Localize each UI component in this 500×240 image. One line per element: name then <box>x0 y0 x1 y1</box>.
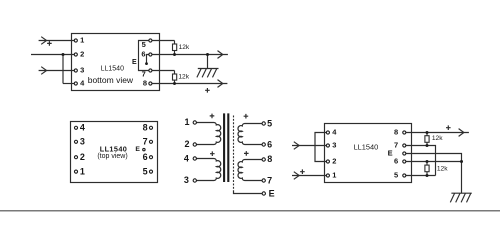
svg-text:6: 6 <box>267 139 272 149</box>
svg-text:4: 4 <box>80 123 85 133</box>
svg-text:8: 8 <box>394 128 398 137</box>
svg-text:12k: 12k <box>432 135 443 142</box>
svg-text:1: 1 <box>332 170 336 179</box>
svg-text:2: 2 <box>80 152 85 162</box>
svg-text:2: 2 <box>184 139 189 149</box>
svg-text:8: 8 <box>143 123 148 133</box>
svg-text:E: E <box>132 59 137 66</box>
svg-text:7: 7 <box>143 137 148 147</box>
svg-text:LL1540: LL1540 <box>101 66 124 73</box>
svg-text:6: 6 <box>394 157 398 166</box>
svg-text:E: E <box>135 146 140 153</box>
svg-text:8: 8 <box>143 79 147 88</box>
svg-text:12k: 12k <box>178 74 189 81</box>
svg-text:7: 7 <box>394 141 398 150</box>
svg-text:7: 7 <box>267 176 272 186</box>
svg-text:5: 5 <box>143 166 148 176</box>
svg-text:2: 2 <box>332 156 336 165</box>
svg-text:12k: 12k <box>179 44 190 51</box>
svg-text:3: 3 <box>80 66 84 75</box>
svg-text:(top view): (top view) <box>97 153 127 160</box>
svg-text:4: 4 <box>184 153 189 163</box>
svg-text:2: 2 <box>80 50 84 59</box>
svg-text:3: 3 <box>80 137 85 147</box>
svg-text:1: 1 <box>184 117 189 127</box>
svg-text:6: 6 <box>143 152 148 162</box>
svg-text:LL1540: LL1540 <box>354 143 379 152</box>
svg-text:3: 3 <box>184 175 189 185</box>
svg-text:E: E <box>388 149 393 158</box>
svg-text:5: 5 <box>267 118 272 128</box>
svg-text:5: 5 <box>394 170 398 179</box>
svg-text:5: 5 <box>142 40 146 49</box>
svg-text:1: 1 <box>80 166 85 176</box>
svg-text:6: 6 <box>141 49 145 58</box>
svg-text:12k: 12k <box>437 165 448 172</box>
svg-text:E: E <box>269 188 275 198</box>
svg-text:3: 3 <box>332 140 336 149</box>
svg-text:8: 8 <box>267 154 272 164</box>
svg-text:7: 7 <box>142 70 146 79</box>
svg-text:4: 4 <box>332 127 337 136</box>
svg-text:4: 4 <box>80 79 85 88</box>
svg-text:bottom view: bottom view <box>88 75 134 85</box>
svg-text:1: 1 <box>80 36 84 45</box>
